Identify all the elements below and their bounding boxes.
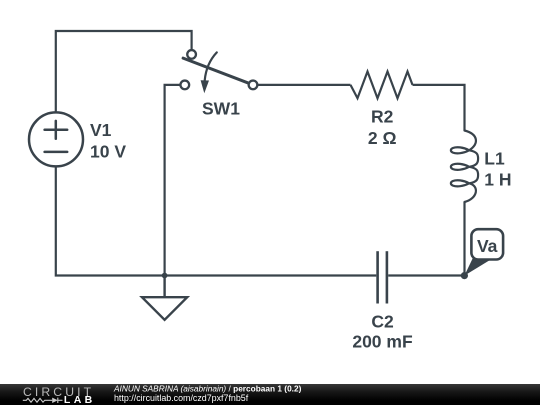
svg-text:Va: Va xyxy=(477,236,498,256)
footer bar xyxy=(0,384,540,405)
svg-text:10 V: 10 V xyxy=(90,142,126,162)
ground symbol xyxy=(142,276,187,320)
svg-text:V1: V1 xyxy=(90,120,112,140)
label node Va xyxy=(477,236,498,256)
svg-text:R2: R2 xyxy=(371,107,394,127)
footer author line xyxy=(113,384,302,394)
CircuitLab logo LAB xyxy=(64,394,96,405)
svg-text:L1: L1 xyxy=(484,149,505,169)
switch SW1 pole terminal xyxy=(187,50,196,59)
wire switch left throw down to ground junction xyxy=(165,85,181,275)
label L1 value 1 H xyxy=(484,149,511,190)
wire V1 bottom to bottom rail to C2 left plate xyxy=(56,166,377,275)
CircuitLab logo CIRCUIT xyxy=(23,385,94,399)
inductor L1 xyxy=(451,131,478,203)
svg-text:LAB: LAB xyxy=(64,394,96,405)
switch SW1 actuation arrow xyxy=(201,52,217,93)
wire R2 to L1 xyxy=(413,85,465,131)
voltage source V1 xyxy=(29,112,83,166)
wire switch right throw to R2 xyxy=(258,84,351,86)
node Va junction dot xyxy=(461,272,468,279)
CircuitLab logo schematic squiggle xyxy=(23,398,63,403)
label C2 value 200 mF xyxy=(352,312,413,352)
label V1 value 10 V xyxy=(90,120,126,162)
wire V1 top to switch pole xyxy=(56,31,192,112)
wire C2 right plate to output node xyxy=(388,274,464,276)
svg-text:200 mF: 200 mF xyxy=(352,332,413,352)
node Va probe box xyxy=(471,229,503,259)
label R2 value 2 ohm xyxy=(368,107,397,149)
switch SW1 lever xyxy=(183,58,249,83)
ground junction node xyxy=(162,273,168,279)
svg-text:C2: C2 xyxy=(371,312,394,332)
node Va probe pointer xyxy=(464,256,490,276)
label SW1 xyxy=(202,99,240,119)
svg-text:http://circuitlab.com/czd7pxf7: http://circuitlab.com/czd7pxf7fnb5f xyxy=(114,393,249,403)
svg-text:SW1: SW1 xyxy=(202,99,240,119)
resistor R2 xyxy=(351,72,413,99)
switch SW1 right throw terminal xyxy=(249,81,258,90)
switch SW1 left throw terminal xyxy=(180,81,189,90)
svg-text:1 H: 1 H xyxy=(484,169,511,189)
capacitor C2 xyxy=(378,251,387,303)
svg-text:2 Ω: 2 Ω xyxy=(368,128,397,148)
footer url line xyxy=(114,393,249,403)
wire L1 bottom to output node xyxy=(463,202,465,276)
